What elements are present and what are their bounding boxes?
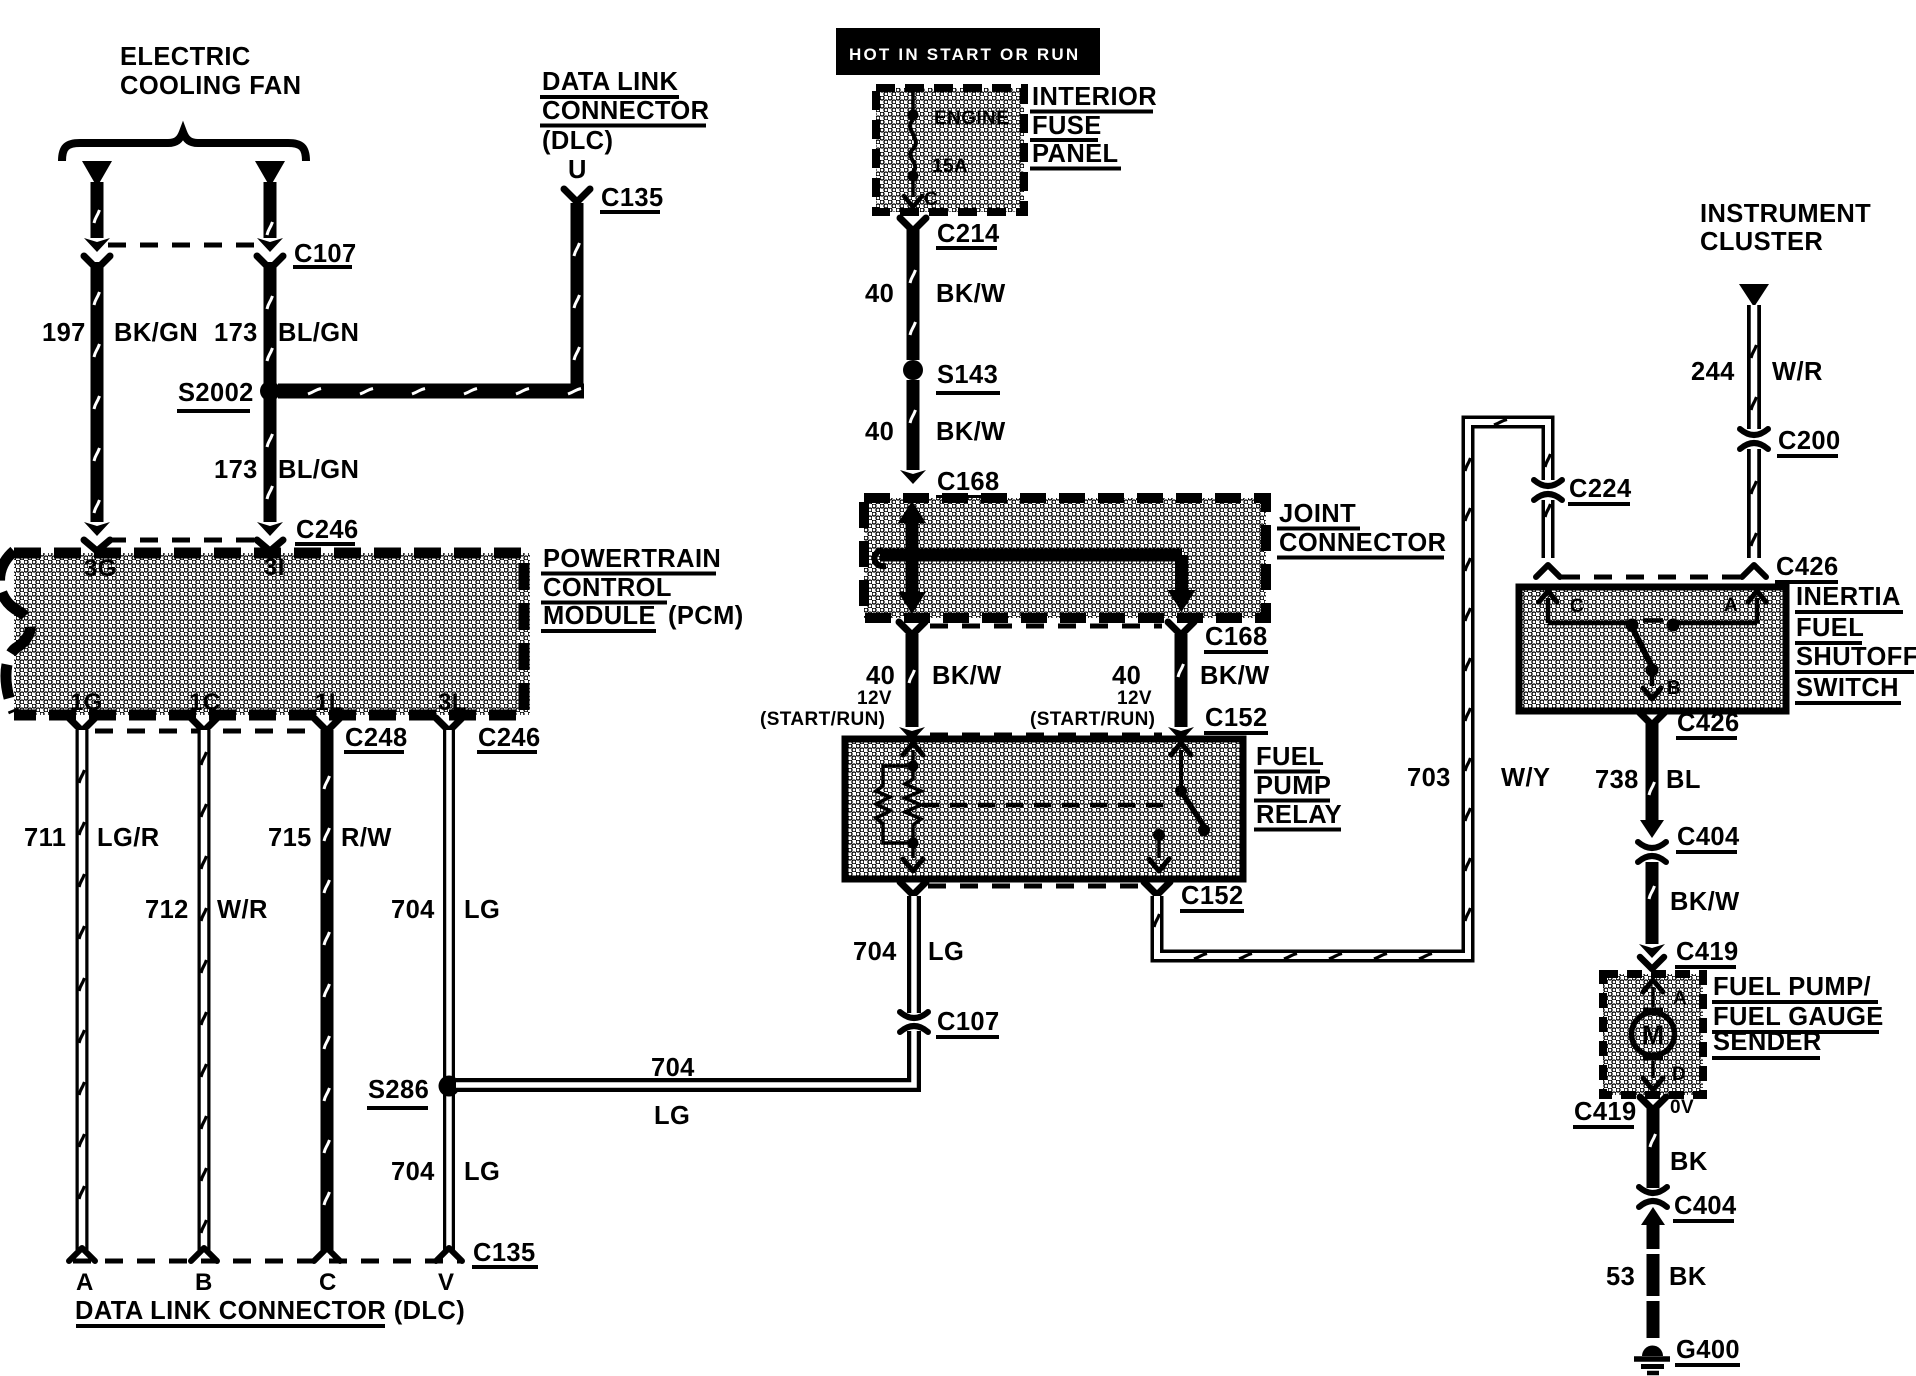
svg-text:715: 715 (268, 824, 312, 852)
svg-text:BK/GN: BK/GN (114, 319, 198, 347)
svg-text:R/W: R/W (341, 824, 392, 852)
wire 704 LG splice run to C107 (456, 897, 914, 1085)
label C404 (upper) (1676, 823, 1740, 852)
wire 173 BL/GN upper segment (257, 182, 283, 252)
svg-text:C: C (1570, 596, 1584, 617)
svg-text:C246: C246 (296, 516, 359, 544)
connector C426 below inertia switch (1639, 712, 1665, 725)
svg-text:704: 704 (391, 1158, 435, 1186)
wire 197 BK/GN upper segment (84, 182, 110, 252)
label 15A (932, 156, 968, 177)
label (START/RUN) right (1030, 709, 1155, 730)
splice S2002 (260, 381, 280, 401)
connector C404 (upper) (1638, 820, 1666, 862)
svg-text:704: 704 (651, 1054, 695, 1082)
svg-text:C248: C248 (345, 724, 408, 752)
svg-text:C404: C404 (1677, 823, 1740, 851)
svg-text:173: 173 (214, 456, 258, 484)
label BK/W (pump) (1670, 888, 1740, 916)
label C419 (bottom) (1573, 1098, 1637, 1127)
svg-text:(DLC): (DLC) (542, 127, 613, 155)
svg-text:JOINT: JOINT (1279, 500, 1356, 528)
connector C152 dashes (top) (930, 733, 1162, 738)
svg-text:A: A (1673, 988, 1687, 1009)
splice S286 (439, 1076, 460, 1097)
fan terminal arrow right (255, 161, 285, 187)
svg-text:U: U (568, 156, 587, 184)
wire 173 BL/GN middle segment (264, 262, 277, 384)
label C135 (bottom) (472, 1239, 538, 1267)
DLC pin A (76, 1269, 94, 1296)
connector C135 DLC line (73, 1259, 462, 1264)
svg-text:738: 738 (1595, 766, 1639, 794)
svg-text:A: A (1724, 595, 1738, 616)
svg-text:CONTROL: CONTROL (543, 574, 672, 602)
connector C248 pins under PCM (69, 718, 340, 731)
label C426 (top) (1775, 553, 1839, 582)
label W/Y (1501, 764, 1550, 792)
svg-text:PANEL: PANEL (1032, 140, 1119, 168)
inertia fuel shutoff switch box (1519, 587, 1786, 711)
svg-text:1L: 1L (315, 689, 344, 716)
joint connector box (864, 498, 1266, 618)
svg-text:1C: 1C (189, 689, 220, 716)
wire 703 W/Y relay to inertia switch (1154, 420, 1560, 960)
svg-text:C152: C152 (1181, 882, 1244, 910)
svg-text:15A: 15A (932, 156, 968, 177)
fuse ENGINE 15A (904, 88, 922, 207)
PCM pin 1G (70, 689, 103, 716)
label LG (relay) (928, 938, 964, 966)
label 712 (145, 896, 189, 924)
label C107 (mid) (936, 1008, 1000, 1037)
wire 40 BK/W segment 3 (left) (899, 634, 925, 741)
label 173 (lower) (214, 456, 258, 484)
connector C168 below joint connector (899, 622, 1194, 635)
svg-text:B: B (195, 1269, 213, 1296)
svg-text:C419: C419 (1574, 1098, 1637, 1126)
svg-text:(PCM): (PCM) (668, 602, 744, 630)
label C152 (bottom) (1180, 882, 1244, 911)
svg-text:DATA LINK CONNECTOR (DLC): DATA LINK CONNECTOR (DLC) (75, 1297, 465, 1325)
label C200 (1777, 427, 1841, 456)
label 173 (left) (214, 319, 258, 347)
connector C107 (fan harness) (84, 245, 283, 269)
svg-text:FUEL PUMP/: FUEL PUMP/ (1713, 973, 1871, 1001)
svg-text:C107: C107 (294, 240, 357, 268)
label 12V (left) (857, 688, 892, 709)
label 53 (1606, 1263, 1635, 1291)
label 704 (upper) (391, 896, 435, 924)
svg-text:C246: C246 (478, 724, 541, 752)
svg-text:244: 244 (1691, 358, 1735, 386)
svg-text:BK: BK (1670, 1148, 1708, 1176)
label C224 (1568, 475, 1632, 504)
svg-text:S143: S143 (937, 361, 998, 389)
label W/R (1772, 358, 1823, 386)
label BK (upper) (1670, 1148, 1708, 1176)
connector C419 (top) (1640, 957, 1664, 969)
label B (inertia pin) (1667, 678, 1681, 699)
DLC pin C (319, 1269, 337, 1296)
powertrain control module (PCM) box (0, 551, 530, 715)
svg-text:BL/GN: BL/GN (278, 456, 359, 484)
label 40 (3) (866, 662, 895, 690)
label C246 (bottom) (477, 724, 541, 752)
fuel pump / fuel gauge sender box (1603, 974, 1703, 1095)
wire 704 LG (PCM to DLC pin V) (436, 730, 462, 1261)
wire 712 W/R (191, 730, 217, 1261)
connector C152 below relay (900, 882, 1170, 895)
label 40 (4) (1112, 662, 1141, 690)
label 704 (lower) (391, 1158, 435, 1186)
label FUEL PUMP RELAY (1254, 743, 1342, 830)
relay switch contact (1149, 743, 1210, 871)
svg-text:SWITCH: SWITCH (1796, 674, 1899, 702)
label BL/GN (lower) (278, 456, 359, 484)
label DATA LINK CONNECTOR (DLC) top (540, 68, 709, 155)
label BK/W (3) (932, 662, 1002, 690)
label C246 (top) (295, 516, 359, 544)
label A (pump pin) (1673, 988, 1687, 1009)
label S286 (367, 1076, 429, 1108)
PCM pin 3L (438, 689, 467, 716)
svg-text:12V: 12V (857, 688, 892, 709)
label C (inertia pin) (1570, 596, 1584, 617)
svg-text:ENGINE: ENGINE (934, 108, 1009, 129)
connector C246 pin under PCM (436, 718, 462, 731)
wire 173 BL/GN lower segment (257, 398, 283, 536)
svg-text:3I: 3I (264, 554, 285, 581)
svg-text:RELAY: RELAY (1256, 801, 1342, 829)
svg-text:C152: C152 (1205, 704, 1268, 732)
svg-text:LG: LG (464, 1158, 500, 1186)
DLC pin V (438, 1269, 454, 1296)
svg-text:C168: C168 (1205, 623, 1268, 651)
wire 704 LG relay to C107 (907, 896, 921, 1016)
PCM pin 1L (315, 689, 344, 716)
svg-text:HOT IN START OR RUN: HOT IN START OR RUN (849, 45, 1080, 64)
label INERTIA FUEL SHUTOFF SWITCH (1795, 583, 1916, 703)
svg-text:W/Y: W/Y (1501, 764, 1550, 792)
brace for electric cooling fan (62, 132, 306, 161)
wire BK/W to fuel pump (1639, 862, 1665, 958)
ground G400 (1634, 1346, 1670, 1374)
label S2002 (177, 379, 254, 411)
svg-text:LG: LG (928, 938, 964, 966)
label BK/GN (114, 319, 198, 347)
label LG/R (97, 824, 160, 852)
svg-text:BK/W: BK/W (1670, 888, 1740, 916)
svg-text:C214: C214 (937, 220, 1000, 248)
label 40 (2) (865, 418, 894, 446)
svg-text:C: C (924, 189, 938, 210)
svg-text:C107: C107 (937, 1008, 1000, 1036)
label BL/GN (left) (278, 319, 359, 347)
svg-text:197: 197 (42, 319, 86, 347)
inertia switch internal circuit (1539, 591, 1766, 699)
wire 40 BK/W segment 1 (907, 228, 920, 360)
svg-text:S2002: S2002 (178, 379, 254, 407)
label C248 (344, 724, 408, 752)
svg-text:40: 40 (866, 662, 895, 690)
wire 173 BL/GN horizontal run to DLC pin U (278, 189, 590, 399)
label 704 (splice run) (651, 1054, 695, 1082)
svg-text:703: 703 (1407, 764, 1451, 792)
svg-text:BK/W: BK/W (936, 418, 1006, 446)
fan terminal arrow left (82, 161, 112, 187)
connector C200 (1740, 429, 1768, 449)
svg-text:704: 704 (853, 938, 897, 966)
label 0V (1670, 1097, 1694, 1118)
label 711 (24, 824, 66, 852)
label 738 (1595, 766, 1639, 794)
svg-text:40: 40 (865, 280, 894, 308)
wire 40 BK/W segment 2 (900, 380, 926, 484)
wire 738 BL (1646, 722, 1659, 822)
label C426 (bottom) (1676, 709, 1740, 738)
svg-text:BK/W: BK/W (1200, 662, 1270, 690)
svg-text:SENDER: SENDER (1713, 1028, 1822, 1056)
svg-text:B: B (1667, 678, 1681, 699)
label (START/RUN) left (760, 709, 885, 730)
label C107 (293, 240, 357, 268)
DLC pin B (195, 1269, 213, 1296)
label 197 (42, 319, 86, 347)
svg-text:12V: 12V (1117, 688, 1152, 709)
svg-text:INTERIOR: INTERIOR (1032, 83, 1157, 111)
svg-text:C135: C135 (473, 1239, 536, 1267)
svg-text:C224: C224 (1569, 475, 1632, 503)
label ENGINE (934, 108, 1009, 129)
wire 197 BK/GN lower segment (84, 262, 110, 536)
label C135 (top) (600, 184, 664, 212)
svg-text:LG/R: LG/R (97, 824, 160, 852)
svg-text:FUEL: FUEL (1796, 614, 1864, 642)
svg-text:BK: BK (1669, 1263, 1707, 1291)
svg-text:SHUTOFF: SHUTOFF (1796, 643, 1916, 671)
joint connector bus bar (874, 501, 1195, 614)
svg-text:3L: 3L (438, 689, 467, 716)
wire 711 LG/R (69, 730, 95, 1261)
svg-text:C426: C426 (1677, 709, 1740, 737)
label D (pump pin) (1672, 1064, 1686, 1085)
wire BK (below sender) (1647, 1108, 1660, 1188)
label U (DLC pin) (568, 156, 587, 184)
svg-text:CONNECTOR: CONNECTOR (542, 97, 709, 125)
svg-text:INERTIA: INERTIA (1796, 583, 1901, 611)
label C214 (936, 220, 1000, 248)
svg-text:173: 173 (214, 319, 258, 347)
label 244 (1691, 358, 1735, 386)
svg-text:PUMP: PUMP (1256, 772, 1331, 800)
wire 715 R/W (314, 730, 340, 1261)
label C404 (lower) (1673, 1192, 1737, 1221)
label BK (lower) (1669, 1263, 1707, 1291)
svg-text:A: A (76, 1269, 94, 1296)
svg-text:C426: C426 (1776, 553, 1839, 581)
label INTERIOR FUSE PANEL (1030, 83, 1157, 169)
svg-text:W/R: W/R (217, 896, 268, 924)
label BK/W (4) (1200, 662, 1270, 690)
label G400 (1675, 1336, 1740, 1365)
svg-text:FUSE: FUSE (1032, 112, 1102, 140)
svg-text:BK/W: BK/W (932, 662, 1002, 690)
label 12V (right) (1117, 688, 1152, 709)
interior fuse panel box (876, 88, 1024, 212)
label FUEL PUMP/ FUEL GAUGE SENDER (1712, 973, 1884, 1058)
wire 40 BK/W segment 4 (right) (1168, 634, 1194, 741)
svg-text:1G: 1G (70, 689, 103, 716)
svg-text:W/R: W/R (1772, 358, 1823, 386)
svg-text:(START/RUN): (START/RUN) (1030, 709, 1155, 730)
svg-text:0V: 0V (1670, 1097, 1694, 1118)
svg-text:BL: BL (1666, 766, 1701, 794)
svg-text:711: 711 (24, 824, 66, 852)
label INSTRUMENT CLUSTER (1700, 200, 1871, 256)
svg-text:COOLING FAN: COOLING FAN (120, 72, 301, 100)
label S143 (936, 361, 1000, 393)
PCM pin 1C (189, 689, 220, 716)
label BK/W (2) (936, 418, 1006, 446)
svg-text:POWERTRAIN: POWERTRAIN (543, 545, 721, 573)
label BL (1666, 766, 1701, 794)
relay coil with parallel resistor (876, 743, 923, 871)
label JOINT CONNECTOR (1277, 500, 1446, 558)
svg-text:FUEL: FUEL (1256, 743, 1324, 771)
svg-text:C: C (319, 1269, 337, 1296)
svg-text:40: 40 (865, 418, 894, 446)
label 704 (relay) (853, 938, 897, 966)
svg-text:712: 712 (145, 896, 189, 924)
svg-text:M: M (1642, 1020, 1665, 1050)
fuel pump relay box (845, 739, 1243, 879)
connector C426 dashes (inertia top) (1562, 575, 1740, 580)
svg-text:D: D (1672, 1064, 1686, 1085)
label 703 (1407, 764, 1451, 792)
wire 53 BK (dashed ground lead) (1647, 1224, 1660, 1338)
svg-text:C419: C419 (1676, 938, 1739, 966)
PCM pin 3I (264, 554, 285, 581)
label LG (upper) (464, 896, 500, 924)
label DATA LINK CONNECTOR (DLC) bottom (75, 1297, 465, 1326)
connector C246 (PCM top) (84, 540, 283, 551)
svg-text:40: 40 (1112, 662, 1141, 690)
svg-text:C404: C404 (1674, 1192, 1737, 1220)
svg-text:INSTRUMENT: INSTRUMENT (1700, 200, 1871, 228)
connector C107 (mid) (900, 1012, 928, 1032)
svg-text:(START/RUN): (START/RUN) (760, 709, 885, 730)
svg-text:BL/GN: BL/GN (278, 319, 359, 347)
PCM pin 3G (84, 555, 117, 582)
svg-text:V: V (438, 1269, 454, 1296)
label C168 (above joint connector) (936, 468, 1000, 497)
connector C419 (bottom) (1640, 1097, 1666, 1110)
svg-text:C200: C200 (1778, 427, 1841, 455)
label POWERTRAIN CONTROL MODULE (PCM) (541, 545, 744, 631)
svg-text:LG: LG (464, 896, 500, 924)
label C152 (top) (1204, 704, 1268, 733)
label C (fuse pin) (924, 189, 938, 210)
svg-text:ELECTRIC: ELECTRIC (120, 43, 251, 71)
svg-text:C168: C168 (937, 468, 1000, 496)
svg-text:MODULE: MODULE (543, 602, 656, 630)
svg-text:BK/W: BK/W (936, 280, 1006, 308)
label BK/W (1) (936, 280, 1006, 308)
svg-text:CONNECTOR: CONNECTOR (1279, 529, 1446, 557)
label 40 (1) (865, 280, 894, 308)
header HOT IN START OR RUN (836, 28, 1100, 75)
svg-text:CLUSTER: CLUSTER (1700, 228, 1823, 256)
label C419 (top) (1675, 938, 1739, 967)
svg-text:C135: C135 (601, 184, 664, 212)
fuel pump motor (1632, 980, 1675, 1090)
instrument cluster terminal arrow (1739, 284, 1769, 307)
connector C404 (lower) (1639, 1187, 1667, 1225)
svg-text:53: 53 (1606, 1263, 1635, 1291)
wire 244 W/R (1742, 305, 1766, 577)
label 715 (268, 824, 312, 852)
svg-text:704: 704 (391, 896, 435, 924)
connector C214 (900, 218, 926, 231)
svg-text:3G: 3G (84, 555, 117, 582)
label LG (splice run) (654, 1102, 690, 1130)
svg-text:FUEL GAUGE: FUEL GAUGE (1713, 1003, 1884, 1031)
connector C224 (1534, 480, 1562, 500)
svg-text:G400: G400 (1676, 1336, 1740, 1364)
svg-text:S286: S286 (368, 1076, 429, 1104)
label W/R (217, 896, 268, 924)
svg-text:DATA LINK: DATA LINK (542, 68, 678, 96)
relay mechanical link (dashed) (922, 803, 1172, 808)
label R/W (341, 824, 392, 852)
splice S143 (903, 360, 923, 380)
label C168 (right) (1204, 623, 1268, 652)
label LG (lower) (464, 1158, 500, 1186)
svg-text:LG: LG (654, 1102, 690, 1130)
label A (inertia pin) (1724, 595, 1738, 616)
label ELECTRIC COOLING FAN (120, 43, 301, 100)
